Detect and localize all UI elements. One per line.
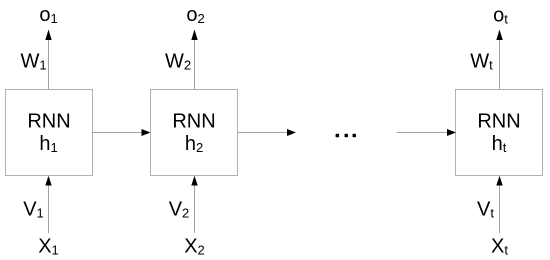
svg-text:W1: W1 xyxy=(20,51,46,73)
svg-text:Wt: Wt xyxy=(470,51,493,73)
svg-text:V2: V2 xyxy=(169,199,190,221)
svg-text:RNN: RNN xyxy=(172,111,215,133)
svg-text:RNN: RNN xyxy=(477,111,520,133)
svg-text:X2: X2 xyxy=(184,236,205,258)
svg-text:RNN: RNN xyxy=(27,111,70,133)
svg-text:X1: X1 xyxy=(38,236,59,258)
svg-text:Xt: Xt xyxy=(491,236,508,258)
svg-text:W2: W2 xyxy=(165,51,191,73)
svg-text:o2: o2 xyxy=(186,4,204,26)
svg-text:Vt: Vt xyxy=(477,199,494,221)
svg-text:o1: o1 xyxy=(39,4,57,26)
svg-text:V1: V1 xyxy=(23,199,44,221)
svg-text:ot: ot xyxy=(493,5,508,27)
